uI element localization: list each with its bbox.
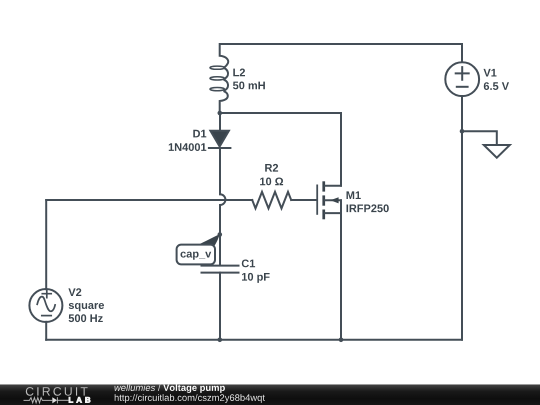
wire bottom horizontal — [46, 339, 462, 341]
wire V2 bottom lead — [45, 322, 47, 340]
value M1 IRFP250 — [347, 204, 389, 212]
diode D1 — [209, 113, 231, 194]
footer author/title — [115, 384, 156, 391]
label M1 — [347, 191, 361, 199]
label D1 — [193, 130, 206, 138]
ground symbol — [484, 145, 510, 158]
wire R2 to M1 gate — [291, 199, 316, 201]
value C1 10 pF — [242, 273, 270, 283]
probe flag cap_v — [177, 234, 220, 264]
resistor R2 — [252, 192, 291, 209]
wire L2 junction to M1 drain — [220, 113, 341, 186]
footer url — [115, 394, 265, 403]
value V2 square — [69, 303, 104, 311]
wire ground branch — [462, 131, 497, 145]
label R2 — [265, 164, 278, 172]
wire hop over gate net — [220, 194, 225, 205]
wire M1 source to bottom net — [340, 200, 342, 339]
wire gate net V2 to R2 — [46, 199, 252, 201]
node junction cap_v probe — [218, 232, 223, 237]
voltage source V2 — [29, 289, 62, 322]
transistor M1 — [317, 181, 341, 219]
node junction V1 ground — [460, 129, 465, 134]
wire V2 top lead — [45, 200, 47, 289]
logo CIRCUIT text — [26, 387, 88, 396]
label V1 — [484, 69, 497, 77]
value R2 10 ohm — [260, 178, 283, 186]
node junction C1 bottom — [218, 338, 223, 343]
value V2 500 Hz — [69, 314, 103, 322]
capacitor C1 — [202, 266, 239, 340]
wire V1 net right side down — [461, 131, 463, 340]
wire top horizontal — [220, 43, 462, 45]
inductor L2 — [210, 44, 228, 113]
value L2 50 mH — [233, 82, 265, 90]
logo LAB text — [69, 397, 90, 403]
node junction under L2 — [218, 111, 223, 116]
label C1 — [242, 260, 255, 268]
value V1 6.5 V — [484, 82, 509, 90]
wire V1 bottom to ground node — [461, 96, 463, 131]
logo diode glyph — [52, 397, 68, 403]
wire cap_v node to C1 — [219, 235, 221, 266]
node junction M1 source bottom — [339, 338, 344, 343]
logo resistor glyph — [24, 398, 53, 403]
label L2 — [233, 69, 245, 77]
wire D1 cathode to cap_v node — [219, 205, 221, 235]
value D1 1N4001 — [169, 143, 207, 151]
wire V1 top lead — [461, 44, 463, 62]
voltage source V1 — [445, 62, 479, 96]
label V2 — [68, 288, 81, 296]
